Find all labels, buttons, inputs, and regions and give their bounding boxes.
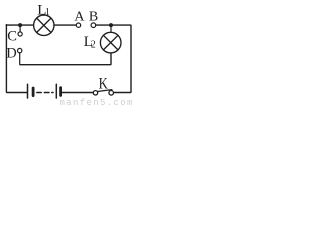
battery cell 2 long plate (+) [55, 84, 57, 98]
terminal C (open circle) [18, 32, 22, 36]
svg-text:C: C [7, 28, 17, 44]
switch K contact terminal (open circle) [109, 91, 114, 96]
terminal B (open circle) [91, 23, 96, 28]
battery cell 1 long plate (+) [27, 84, 29, 98]
wire L2 top lead [110, 25, 112, 32]
terminal A (open circle) [76, 23, 80, 27]
wire stub from junction down to terminal C [19, 25, 21, 32]
switch K pivot terminal (open circle) [93, 91, 97, 95]
wire middle rail from D stub to lamp L2 bottom lead [20, 53, 111, 65]
svg-text:K: K [99, 75, 109, 93]
svg-text:A: A [74, 10, 85, 25]
node (junction dot) at C stub on top wire [18, 23, 22, 27]
svg-text:2: 2 [91, 40, 96, 51]
svg-text:B: B [89, 10, 98, 25]
wire battery to switch [62, 92, 93, 94]
wire top-right segment and right vertical [96, 25, 131, 92]
wire stub from terminal D down to middle rail [19, 53, 22, 65]
battery cell 2 short plate (-) [59, 88, 62, 96]
wire top-left segment [6, 24, 33, 26]
wire left vertical and bottom-left [6, 25, 27, 93]
svg-text:D: D [6, 45, 16, 61]
svg-text:1: 1 [45, 7, 50, 18]
wire dashed segment between battery cells [37, 92, 53, 94]
node (junction dot) at L2 branch on top wire [109, 23, 113, 27]
lamp L2 [100, 32, 121, 53]
terminal D (open circle) [18, 48, 22, 52]
battery cell 1 short plate (-) [32, 88, 35, 96]
switch K lever [97, 90, 112, 92]
lamp L1 [34, 15, 54, 35]
svg-text:manfen5.com: manfen5.com [60, 98, 134, 105]
wire top middle segment (L1 to terminal A) [54, 24, 76, 26]
